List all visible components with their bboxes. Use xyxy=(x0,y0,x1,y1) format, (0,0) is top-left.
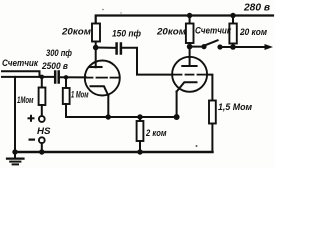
wire top supply rail xyxy=(96,16,273,25)
resistor R5 20k xyxy=(232,16,234,24)
grid V1 dashed xyxy=(85,77,119,79)
svg-text:20 ком: 20 ком xyxy=(239,27,267,37)
wire left drop to ground rail xyxy=(14,77,16,152)
resistor R7 2k cathode xyxy=(139,117,141,121)
resistor R1 1M xyxy=(41,77,43,88)
svg-text:20ком: 20ком xyxy=(156,27,186,37)
svg-text:1,5 Мом: 1,5 Мом xyxy=(218,102,252,112)
node R7 bottom xyxy=(137,149,142,154)
node R7 top junction xyxy=(137,114,142,119)
wire R3 to cathode bus xyxy=(66,104,108,117)
svg-text:Счетчик: Счетчик xyxy=(2,57,39,68)
wire cathode bus xyxy=(108,116,176,118)
svg-text:1Мом: 1Мом xyxy=(17,95,34,105)
wire grid V2 to R6 xyxy=(207,75,213,101)
svg-text:1 Мом: 1 Мом xyxy=(71,90,89,100)
svg-text:2500 в: 2500 в xyxy=(41,61,68,71)
node R5 bottom junction xyxy=(230,44,236,50)
svg-text:2 ком: 2 ком xyxy=(145,128,167,138)
svg-text:Счетчик: Счетчик xyxy=(195,26,231,36)
cathode V2 xyxy=(177,82,197,91)
wire output with arrow xyxy=(233,46,265,48)
wire anode V1 lead xyxy=(95,48,97,68)
wire counter input bottom line xyxy=(2,76,55,78)
switch SA contacts xyxy=(190,46,204,48)
capacitor C1 300pF 2500V xyxy=(54,72,57,83)
tube V2 envelope xyxy=(172,57,207,92)
svg-text:20ком: 20ком xyxy=(61,27,91,37)
node anode V2 junction xyxy=(187,44,193,50)
node R5 top xyxy=(230,13,235,18)
svg-text:300 пф: 300 пф xyxy=(46,48,72,58)
resistor R2 20k (anode load V1) xyxy=(92,24,100,42)
wire ground rail xyxy=(15,151,213,153)
wire C2 to grid V2 xyxy=(121,48,173,75)
wire R6 to ground rail xyxy=(211,124,213,153)
capacitor C2 150pF xyxy=(115,44,118,54)
cathode V1 xyxy=(91,86,109,95)
node cathode V1 junction xyxy=(106,114,111,119)
svg-text:280 в: 280 в xyxy=(243,3,270,14)
terminal battery + xyxy=(39,116,45,122)
svg-text:НS: НS xyxy=(37,126,51,136)
anode plate V2 xyxy=(182,65,196,67)
speck xyxy=(243,33,245,35)
wire R2 bottom lead xyxy=(95,42,97,48)
node ground rail left xyxy=(12,149,17,154)
wire cathode V2 down xyxy=(176,92,178,117)
label battery plus xyxy=(28,115,35,122)
grid V2 dashed xyxy=(174,74,206,76)
svg-text:150 пф: 150 пф xyxy=(112,29,141,39)
wire cathode V1 down xyxy=(107,96,109,117)
resistor R4 20k (anode load V2) xyxy=(189,16,191,24)
resistor R6 1.5M xyxy=(209,101,216,124)
node input tap R1 xyxy=(40,75,45,80)
wire C1 to grid V1 xyxy=(59,76,86,78)
wire anode V2 lead xyxy=(189,47,191,66)
node R4 top xyxy=(187,13,192,18)
resistor R3 1M grid leak xyxy=(65,77,67,88)
switch arm xyxy=(205,40,218,45)
tube V1 envelope xyxy=(85,61,120,96)
node battery drop junction xyxy=(39,149,44,154)
wire counter input top line xyxy=(2,71,40,77)
speck xyxy=(102,9,104,11)
switch right contact xyxy=(217,44,222,49)
node grid V1 tap R3 xyxy=(64,75,68,79)
ground symbol xyxy=(14,152,16,158)
terminal battery - xyxy=(39,137,45,143)
node anode V1 junction xyxy=(93,45,99,51)
anode plate V1 xyxy=(89,66,102,68)
speck xyxy=(120,12,121,13)
node cathode V2 junction xyxy=(174,114,180,120)
wire anode V1 to C2 xyxy=(96,47,116,49)
speck xyxy=(196,145,198,147)
wire battery - to ground rail xyxy=(41,143,43,152)
label battery minus xyxy=(29,139,36,141)
